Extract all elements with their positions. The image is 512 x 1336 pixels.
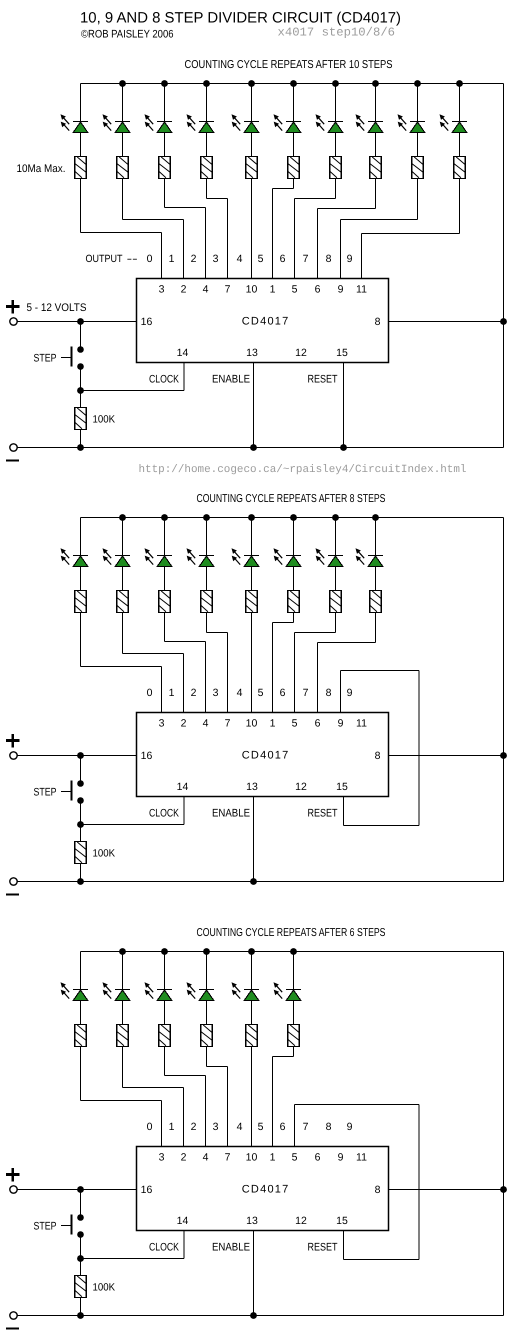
wire output 1 vertical to IC pin circuit 1 (10 steps) (183, 220, 185, 279)
junction dot rail LED7 circuit 2 (8 steps) (372, 514, 379, 521)
wire output 2 jog horizontal circuit 3 (6 steps) (165, 1075, 206, 1077)
svg-text:2: 2 (191, 1121, 197, 1133)
svg-text:13: 13 (246, 1215, 258, 1227)
wire pin 13 ENABLE to bottom rail circuit 3 (6 steps) (253, 1231, 255, 1316)
wire output 9 vertical from resistor circuit 1 (10 steps) (459, 179, 461, 234)
minus symbol circuit 2 (8 steps) (6, 893, 19, 895)
wire switch to junction circuit 2 (8 steps) (80, 801, 82, 842)
svg-text:10: 10 (246, 1152, 258, 1164)
svg-text:0: 0 (147, 687, 153, 699)
wire rail to LED4 circuit 3 (6 steps) (251, 952, 253, 991)
positive terminal circuit 3 (6 steps) (10, 1186, 17, 1193)
svg-text:8: 8 (326, 687, 332, 699)
svg-text:5: 5 (292, 284, 298, 296)
svg-text:7: 7 (303, 687, 309, 699)
svg-text:4: 4 (237, 253, 243, 265)
wire output 1 vertical to IC pin circuit 2 (8 steps) (183, 654, 185, 713)
negative terminal circuit 2 (8 steps) (10, 878, 17, 885)
svg-text:5: 5 (258, 1121, 264, 1133)
svg-text:14: 14 (177, 1215, 189, 1227)
plus symbol circuit 2 (8 steps) (6, 739, 19, 742)
svg-text:15: 15 (336, 347, 348, 359)
wire reset loop right vertical circuit 3 (6 steps) (418, 1105, 420, 1260)
wire rail to LED1 circuit 2 (8 steps) (122, 518, 124, 557)
wire clock node to pin 14 circuit 3 (6 steps) (81, 1258, 185, 1260)
wire output 2 jog horizontal circuit 2 (8 steps) (165, 641, 206, 643)
svg-text:9: 9 (338, 718, 344, 730)
wire pin15 to reset loop circuit 2 (8 steps) (343, 797, 345, 826)
wire output 1 vertical from resistor circuit 2 (8 steps) (122, 613, 124, 654)
LED6 circuit 2 (8 steps) (316, 548, 344, 566)
wire LED2 to resistor circuit 2 (8 steps) (164, 567, 166, 591)
resistor LED4 circuit 3 (6 steps) (246, 1025, 258, 1047)
svg-text:7: 7 (303, 253, 309, 265)
svg-text:2: 2 (191, 687, 197, 699)
push-button STEP circuit 1 (10 steps) (77, 346, 84, 353)
LED2 circuit 1 (10 steps) (145, 114, 173, 132)
wire reset loop right vertical circuit 2 (8 steps) (418, 671, 420, 826)
junction dot rail LED2 circuit 2 (8 steps) (161, 514, 168, 521)
svg-text:3: 3 (213, 687, 219, 699)
wire output 2 vertical to IC pin circuit 2 (8 steps) (205, 642, 207, 713)
LED3 circuit 1 (10 steps) (187, 114, 215, 132)
wire output 1 jog horizontal circuit 3 (6 steps) (123, 1087, 184, 1089)
junction dot rail LED4 circuit 3 (6 steps) (248, 948, 255, 955)
LED4 circuit 3 (6 steps) (232, 982, 260, 1000)
wire LED3 to resistor circuit 1 (10 steps) (206, 133, 208, 157)
wire output 3 jog horizontal circuit 1 (10 steps) (207, 198, 228, 200)
svg-text:4: 4 (203, 718, 209, 730)
svg-text:10: 10 (246, 718, 258, 730)
wire output 9 vertical to IC pin circuit 1 (10 steps) (361, 234, 363, 279)
wire output 3 vertical to IC pin circuit 3 (6 steps) (227, 1067, 229, 1147)
wire reset loop top horizontal circuit 2 (8 steps) (341, 670, 420, 672)
LED3 circuit 3 (6 steps) (187, 982, 215, 1000)
wire LED3 to resistor circuit 2 (8 steps) (206, 567, 208, 591)
wire output 5 vertical to IC pin circuit 1 (10 steps) (272, 189, 274, 279)
wire output 1 jog horizontal circuit 1 (10 steps) (123, 219, 184, 221)
svg-text:6: 6 (315, 718, 321, 730)
svg-text:6: 6 (315, 284, 321, 296)
junction dot clock node circuit 3 (6 steps) (77, 1255, 84, 1262)
resistor LED0 circuit 1 (10 steps) (75, 157, 87, 179)
svg-text:100K: 100K (93, 414, 116, 426)
resistor LED5 circuit 3 (6 steps) (288, 1025, 300, 1047)
resistor LED0 circuit 3 (6 steps) (75, 1025, 87, 1047)
svg-text:8: 8 (375, 316, 381, 328)
junction dot pin8 right rail circuit 2 (8 steps) (500, 752, 507, 759)
junction dot rail LED1 circuit 2 (8 steps) (119, 514, 126, 521)
svg-text:7: 7 (225, 1152, 231, 1164)
junction dot rail LED8 circuit 1 (10 steps) (414, 80, 421, 87)
positive terminal circuit 1 (10 steps) (10, 318, 17, 325)
svg-text:©ROB PAISLEY 2006: ©ROB PAISLEY 2006 (81, 29, 174, 41)
wire LED3 to resistor circuit 3 (6 steps) (206, 1001, 208, 1025)
svg-text:12: 12 (295, 347, 307, 359)
svg-text:CD4017: CD4017 (242, 750, 289, 762)
junction dot pin8 right rail circuit 1 (10 steps) (500, 318, 507, 325)
wire LED4 to resistor circuit 3 (6 steps) (251, 1001, 253, 1025)
wire rail to LED3 circuit 2 (8 steps) (206, 518, 208, 557)
wire 100K to bottom rail circuit 1 (10 steps) (80, 430, 82, 448)
svg-text:CLOCK: CLOCK (149, 1242, 180, 1254)
junction dot rail LED7 circuit 1 (10 steps) (372, 80, 379, 87)
wire output 5 vertical from resistor circuit 1 (10 steps) (293, 179, 295, 189)
wire top LED supply rail circuit 3 (6 steps) (81, 951, 504, 953)
svg-text:14: 14 (177, 347, 189, 359)
resistor LED6 circuit 1 (10 steps) (330, 157, 342, 179)
wire output 3 jog horizontal circuit 2 (8 steps) (207, 632, 228, 634)
wire pin 13 ENABLE to bottom rail circuit 1 (10 steps) (253, 363, 255, 448)
junction dot clock node circuit 1 (10 steps) (77, 387, 84, 394)
wire pin 13 ENABLE to bottom rail circuit 2 (8 steps) (253, 797, 255, 882)
wire rail to LED7 circuit 1 (10 steps) (375, 84, 377, 123)
svg-text:STEP: STEP (34, 1221, 57, 1233)
resistor LED2 circuit 2 (8 steps) (159, 591, 171, 613)
wire LED4 to resistor circuit 1 (10 steps) (251, 133, 253, 157)
wire LED1 to resistor circuit 2 (8 steps) (122, 567, 124, 591)
svg-text:100K: 100K (93, 848, 116, 860)
wire output 6 vertical from resistor circuit 2 (8 steps) (335, 613, 337, 633)
svg-text:6: 6 (315, 1152, 321, 1164)
svg-text:11: 11 (356, 718, 367, 730)
wire pin15 to reset loop circuit 3 (6 steps) (343, 1231, 345, 1260)
svg-text:COUNTING CYCLE REPEATS AFTER 1: COUNTING CYCLE REPEATS AFTER 10 STEPS (185, 59, 393, 71)
junction dot rail LED6 circuit 1 (10 steps) (332, 80, 339, 87)
resistor LED3 circuit 3 (6 steps) (201, 1025, 213, 1047)
wire LED5 to resistor circuit 3 (6 steps) (293, 1001, 295, 1025)
LED2 circuit 2 (8 steps) (145, 548, 173, 566)
wire reset loop pin column circuit 3 (6 steps) (294, 1105, 296, 1147)
svg-text:COUNTING CYCLE REPEATS AFTER 6: COUNTING CYCLE REPEATS AFTER 6 STEPS (197, 927, 386, 939)
wire LED1 to resistor circuit 3 (6 steps) (122, 1001, 124, 1025)
svg-text:16: 16 (141, 750, 153, 762)
wire right-side vertical rail circuit 2 (8 steps) (503, 518, 505, 882)
junction dot reset circuit 1 (10 steps) (340, 444, 347, 451)
wire output 0 vertical from resistor circuit 1 (10 steps) (80, 179, 82, 233)
wire LED5 to resistor circuit 2 (8 steps) (293, 567, 295, 591)
wire output 0 jog horizontal circuit 1 (10 steps) (81, 232, 162, 234)
wire rail to LED6 circuit 1 (10 steps) (335, 84, 337, 123)
svg-text:1: 1 (169, 687, 175, 699)
svg-text:10: 10 (246, 284, 258, 296)
svg-text:2: 2 (191, 253, 197, 265)
wire output 5 jog horizontal circuit 2 (8 steps) (273, 622, 294, 624)
LED5 circuit 1 (10 steps) (274, 114, 302, 132)
junction dot rail LED9 circuit 1 (10 steps) (456, 80, 463, 87)
junction dot positive rail circuit 3 (6 steps) (77, 1186, 84, 1193)
resistor LED6 circuit 2 (8 steps) (330, 591, 342, 613)
LED3 circuit 2 (8 steps) (187, 548, 215, 566)
LED4 circuit 2 (8 steps) (232, 548, 260, 566)
plus symbol circuit 3 (6 steps) (6, 1173, 19, 1176)
wire output 3 vertical from resistor circuit 1 (10 steps) (206, 179, 208, 199)
wire rail to LED4 circuit 2 (8 steps) (251, 518, 253, 557)
svg-text:15: 15 (336, 1215, 348, 1227)
wire switch to junction circuit 1 (10 steps) (80, 367, 82, 408)
LED1 circuit 2 (8 steps) (103, 548, 131, 566)
junction dot 100K bottom circuit 3 (6 steps) (77, 1312, 84, 1319)
svg-text:5: 5 (292, 718, 298, 730)
wire output 4 straight to pin circuit 3 (6 steps) (251, 1047, 253, 1147)
wire output 7 vertical from resistor circuit 2 (8 steps) (375, 613, 377, 643)
svg-text:6: 6 (280, 687, 286, 699)
wire output 2 vertical from resistor circuit 1 (10 steps) (164, 179, 166, 208)
junction dot rail LED4 circuit 2 (8 steps) (248, 514, 255, 521)
junction dot rail LED2 circuit 1 (10 steps) (161, 80, 168, 87)
resistor LED4 circuit 2 (8 steps) (246, 591, 258, 613)
wire output 2 vertical to IC pin circuit 3 (6 steps) (205, 1076, 207, 1147)
wire rail to LED1 circuit 1 (10 steps) (122, 84, 124, 123)
wire LED8 to resistor circuit 1 (10 steps) (417, 133, 419, 157)
resistor LED7 circuit 2 (8 steps) (370, 591, 382, 613)
svg-text:1: 1 (169, 253, 175, 265)
wire rail to LED2 circuit 2 (8 steps) (164, 518, 166, 557)
wire output 6 vertical to IC pin circuit 1 (10 steps) (294, 199, 296, 279)
wire output 1 vertical from resistor circuit 3 (6 steps) (122, 1047, 124, 1088)
LED7 circuit 1 (10 steps) (356, 114, 384, 132)
IC CD4017 circuit 3 (6 steps) (137, 1147, 389, 1231)
svg-text:5 - 12 VOLTS: 5 - 12 VOLTS (27, 302, 87, 314)
wire reset loop bottom horizontal circuit 3 (6 steps) (344, 1259, 420, 1261)
LED5 circuit 2 (8 steps) (274, 548, 302, 566)
svg-text:CLOCK: CLOCK (149, 808, 180, 820)
wire negative bottom rail circuit 3 (6 steps) (18, 1315, 504, 1317)
svg-text:3: 3 (159, 718, 165, 730)
LED0 circuit 3 (6 steps) (61, 982, 89, 1000)
LED6 circuit 1 (10 steps) (316, 114, 344, 132)
wire reset loop pin column circuit 2 (8 steps) (340, 671, 342, 713)
wire 100K to bottom rail circuit 3 (6 steps) (80, 1298, 82, 1316)
wire rail to LED5 circuit 2 (8 steps) (293, 518, 295, 557)
wire rail to LED2 circuit 3 (6 steps) (164, 952, 166, 991)
wire output 2 vertical from resistor circuit 3 (6 steps) (164, 1047, 166, 1076)
svg-text:9: 9 (338, 284, 344, 296)
wire output 5 vertical from resistor circuit 2 (8 steps) (293, 613, 295, 623)
wire output 6 jog horizontal circuit 2 (8 steps) (295, 632, 336, 634)
wire output 7 vertical to IC pin circuit 2 (8 steps) (317, 643, 319, 713)
svg-text:9: 9 (338, 1152, 344, 1164)
svg-text:ENABLE: ENABLE (212, 374, 250, 386)
resistor LED1 circuit 2 (8 steps) (117, 591, 129, 613)
svg-text:RESET: RESET (308, 808, 338, 820)
svg-text:8: 8 (326, 253, 332, 265)
IC CD4017 circuit 2 (8 steps) (137, 713, 389, 797)
svg-text:16: 16 (141, 1184, 153, 1196)
svg-text:11: 11 (356, 1152, 367, 1164)
svg-text:13: 13 (246, 347, 258, 359)
resistor LED8 circuit 1 (10 steps) (412, 157, 424, 179)
junction dot clock node circuit 2 (8 steps) (77, 821, 84, 828)
wire rail to LED5 circuit 1 (10 steps) (293, 84, 295, 123)
wire pin 8 to right rail circuit 2 (8 steps) (389, 755, 504, 757)
wire reset loop bottom horizontal circuit 2 (8 steps) (344, 825, 420, 827)
junction dot enable circuit 1 (10 steps) (250, 444, 257, 451)
junction dot rail LED1 circuit 1 (10 steps) (119, 80, 126, 87)
junction dot rail LED1 circuit 3 (6 steps) (119, 948, 126, 955)
wire output 4 straight to pin circuit 2 (8 steps) (251, 613, 253, 713)
wire LED7 to resistor circuit 1 (10 steps) (375, 133, 377, 157)
wire output 5 jog horizontal circuit 1 (10 steps) (273, 188, 294, 190)
svg-text:9: 9 (347, 253, 353, 265)
svg-text:STEP: STEP (34, 353, 57, 365)
svg-text:15: 15 (336, 781, 348, 793)
wire rail to LED9 circuit 1 (10 steps) (459, 84, 461, 123)
svg-text:12: 12 (295, 781, 307, 793)
LED4 circuit 1 (10 steps) (232, 114, 260, 132)
junction dot rail LED4 circuit 1 (10 steps) (248, 80, 255, 87)
svg-text:1: 1 (270, 1152, 276, 1164)
wire rail to switch circuit 2 (8 steps) (80, 756, 82, 784)
resistor 100K circuit 1 (10 steps) (75, 408, 87, 430)
wire rail to LED4 circuit 1 (10 steps) (251, 84, 253, 123)
wire output 4 straight to pin circuit 1 (10 steps) (251, 179, 253, 279)
minus symbol circuit 1 (10 steps) (6, 459, 19, 461)
svg-text:14: 14 (177, 781, 189, 793)
wire positive rail to pin 16 circuit 1 (10 steps) (18, 321, 137, 323)
resistor LED5 circuit 1 (10 steps) (288, 157, 300, 179)
svg-text:5: 5 (258, 253, 264, 265)
wire LED4 to resistor circuit 2 (8 steps) (251, 567, 253, 591)
negative terminal circuit 3 (6 steps) (10, 1312, 17, 1319)
wire output 8 vertical from resistor circuit 1 (10 steps) (417, 179, 419, 220)
resistor LED3 circuit 2 (8 steps) (201, 591, 213, 613)
wire top LED supply rail circuit 1 (10 steps) (81, 83, 504, 85)
svg-text:ENABLE: ENABLE (212, 1242, 250, 1254)
resistor LED2 circuit 1 (10 steps) (159, 157, 171, 179)
svg-text:RESET: RESET (308, 1242, 338, 1254)
svg-text:0: 0 (147, 1121, 153, 1133)
minus symbol circuit 3 (6 steps) (6, 1327, 19, 1329)
wire rail to switch circuit 1 (10 steps) (80, 322, 82, 350)
wire pin 15 RESET to bottom rail circuit 1 (10 steps) (343, 363, 345, 448)
svg-text:STEP: STEP (34, 787, 57, 799)
svg-text:1: 1 (270, 284, 276, 296)
wire output 3 vertical from resistor circuit 3 (6 steps) (206, 1047, 208, 1067)
push-button STEP circuit 3 (6 steps) (77, 1214, 84, 1221)
wire LED0 to resistor circuit 2 (8 steps) (80, 567, 82, 591)
svg-text:OUTPUT: OUTPUT (86, 253, 123, 265)
svg-text:RESET: RESET (308, 374, 338, 386)
wire rail to LED6 circuit 2 (8 steps) (335, 518, 337, 557)
svg-text:2: 2 (181, 718, 187, 730)
wire negative bottom rail circuit 2 (8 steps) (18, 881, 504, 883)
wire output 6 vertical to IC pin circuit 2 (8 steps) (294, 633, 296, 713)
wire output 3 vertical to IC pin circuit 1 (10 steps) (227, 199, 229, 279)
wire LED0 to resistor circuit 3 (6 steps) (80, 1001, 82, 1025)
LED0 circuit 2 (8 steps) (61, 548, 89, 566)
junction dot rail LED5 circuit 3 (6 steps) (290, 948, 297, 955)
wire output 5 vertical to IC pin circuit 3 (6 steps) (272, 1057, 274, 1147)
wire pin 8 to right rail circuit 3 (6 steps) (389, 1189, 504, 1191)
svg-text:8: 8 (375, 750, 381, 762)
wire pin 8 to right rail circuit 1 (10 steps) (389, 321, 504, 323)
junction dot rail LED3 circuit 2 (8 steps) (203, 514, 210, 521)
svg-text:9: 9 (347, 1121, 353, 1133)
wire rail to LED0 circuit 3 (6 steps) (80, 952, 82, 991)
svg-text:4: 4 (203, 1152, 209, 1164)
wire LED6 to resistor circuit 2 (8 steps) (335, 567, 337, 591)
resistor LED1 circuit 1 (10 steps) (117, 157, 129, 179)
wire output 5 vertical to IC pin circuit 2 (8 steps) (272, 623, 274, 713)
wire negative bottom rail circuit 1 (10 steps) (18, 447, 504, 449)
svg-text:4: 4 (237, 687, 243, 699)
LED0 circuit 1 (10 steps) (61, 114, 89, 132)
wire output 0 vertical to IC pin circuit 1 (10 steps) (161, 233, 163, 279)
svg-text:CD4017: CD4017 (242, 1184, 289, 1196)
wire output 2 vertical to IC pin circuit 1 (10 steps) (205, 208, 207, 279)
wire LED9 to resistor circuit 1 (10 steps) (459, 133, 461, 157)
svg-text:3: 3 (213, 253, 219, 265)
resistor LED4 circuit 1 (10 steps) (246, 157, 258, 179)
svg-text:ENABLE: ENABLE (212, 808, 250, 820)
svg-text:7: 7 (303, 1121, 309, 1133)
wire right-side vertical rail circuit 1 (10 steps) (503, 84, 505, 448)
wire output 7 jog horizontal circuit 1 (10 steps) (318, 208, 376, 210)
svg-text:8: 8 (326, 1121, 332, 1133)
resistor 100K circuit 2 (8 steps) (75, 842, 87, 864)
wire rail to LED3 circuit 1 (10 steps) (206, 84, 208, 123)
svg-text:1: 1 (270, 718, 276, 730)
wire right-side vertical rail circuit 3 (6 steps) (503, 952, 505, 1316)
junction dot rail LED6 circuit 2 (8 steps) (332, 514, 339, 521)
junction dot positive rail circuit 1 (10 steps) (77, 318, 84, 325)
junction dot rail LED3 circuit 1 (10 steps) (203, 80, 210, 87)
junction dot rail LED5 circuit 1 (10 steps) (290, 80, 297, 87)
junction dot rail LED5 circuit 2 (8 steps) (290, 514, 297, 521)
LED8 circuit 1 (10 steps) (398, 114, 426, 132)
wire rail to switch circuit 3 (6 steps) (80, 1190, 82, 1218)
wire LED2 to resistor circuit 1 (10 steps) (164, 133, 166, 157)
resistor LED5 circuit 2 (8 steps) (288, 591, 300, 613)
resistor LED0 circuit 2 (8 steps) (75, 591, 87, 613)
resistor LED7 circuit 1 (10 steps) (370, 157, 382, 179)
svg-text:2: 2 (181, 284, 187, 296)
positive terminal circuit 2 (8 steps) (10, 752, 17, 759)
svg-text:6: 6 (280, 253, 286, 265)
junction dot positive rail circuit 2 (8 steps) (77, 752, 84, 759)
junction dot 100K bottom circuit 2 (8 steps) (77, 878, 84, 885)
wire output 2 vertical from resistor circuit 2 (8 steps) (164, 613, 166, 642)
LED2 circuit 3 (6 steps) (145, 982, 173, 1000)
svg-text:http://home.cogeco.ca/~rpaisle: http://home.cogeco.ca/~rpaisley4/Circuit… (139, 464, 467, 476)
wire output 7 jog horizontal circuit 2 (8 steps) (318, 642, 376, 644)
resistor LED9 circuit 1 (10 steps) (454, 157, 466, 179)
svg-text:3: 3 (159, 1152, 165, 1164)
wire output 5 vertical from resistor circuit 3 (6 steps) (293, 1047, 295, 1057)
wire output 0 jog horizontal circuit 2 (8 steps) (81, 666, 162, 668)
junction dot rail LED2 circuit 3 (6 steps) (161, 948, 168, 955)
junction dot pin8 right rail circuit 3 (6 steps) (500, 1186, 507, 1193)
svg-text:--: -- (127, 253, 139, 265)
wire output 0 vertical from resistor circuit 3 (6 steps) (80, 1047, 82, 1101)
resistor LED3 circuit 1 (10 steps) (201, 157, 213, 179)
junction dot rail LED3 circuit 3 (6 steps) (203, 948, 210, 955)
svg-text:100K: 100K (93, 1282, 116, 1294)
wire LED2 to resistor circuit 3 (6 steps) (164, 1001, 166, 1025)
resistor 100K circuit 3 (6 steps) (75, 1276, 87, 1298)
junction dot 100K bottom circuit 1 (10 steps) (77, 444, 84, 451)
wire output 6 vertical from resistor circuit 1 (10 steps) (335, 179, 337, 199)
LED7 circuit 2 (8 steps) (356, 548, 384, 566)
wire LED0 to resistor circuit 1 (10 steps) (80, 133, 82, 157)
svg-text:3: 3 (213, 1121, 219, 1133)
wire output 0 vertical to IC pin circuit 3 (6 steps) (161, 1101, 163, 1147)
wire clock node to pin 14 circuit 2 (8 steps) (81, 824, 185, 826)
svg-text:2: 2 (181, 1152, 187, 1164)
wire rail to LED1 circuit 3 (6 steps) (122, 952, 124, 991)
wire output 3 jog horizontal circuit 3 (6 steps) (207, 1066, 228, 1068)
